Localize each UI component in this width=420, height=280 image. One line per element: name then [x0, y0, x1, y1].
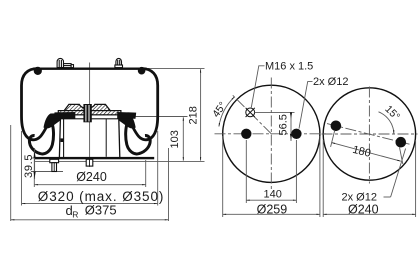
svg-text:Ø240: Ø240 — [76, 170, 107, 184]
svg-text:218: 218 — [188, 106, 200, 124]
svg-text:103: 103 — [169, 130, 181, 148]
svg-text:140: 140 — [264, 188, 282, 200]
svg-text:Ø259: Ø259 — [257, 203, 288, 217]
svg-text:2x Ø12: 2x Ø12 — [313, 76, 348, 88]
svg-text:39.5: 39.5 — [23, 154, 35, 178]
svg-text:Ø240: Ø240 — [348, 202, 379, 216]
svg-text:Ø375: Ø375 — [85, 203, 117, 218]
svg-text:56.5: 56.5 — [278, 114, 290, 135]
svg-text:R: R — [72, 209, 78, 219]
svg-text:M16 x 1.5: M16 x 1.5 — [265, 61, 313, 73]
